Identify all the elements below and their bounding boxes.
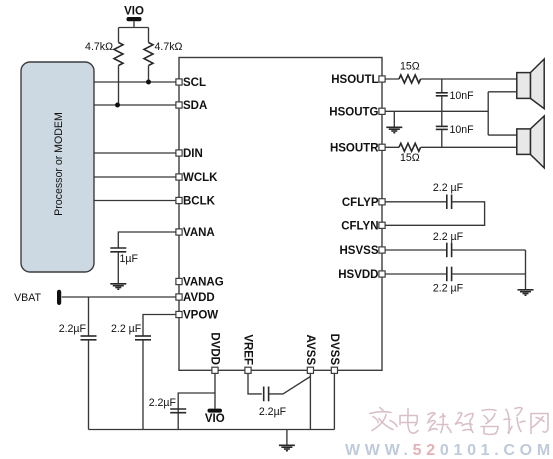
wire AVSS down xyxy=(309,370,311,429)
svg-text:VREF: VREF xyxy=(242,334,254,365)
svg-text:10nF: 10nF xyxy=(450,90,475,102)
pin CFLYN xyxy=(341,220,385,232)
wire WCLK xyxy=(94,176,179,178)
wire cap to bottom rail xyxy=(142,340,144,430)
ground (bottom rail) xyxy=(279,445,295,450)
wire HSOUTR to speaker xyxy=(421,146,518,148)
wire lower speaker return xyxy=(488,134,517,136)
wire DVSS down xyxy=(333,370,335,429)
ground (VANA decoupling) xyxy=(110,284,126,289)
pin WCLK xyxy=(176,172,218,184)
wire DVDD down xyxy=(214,370,216,408)
capacitor 10nF (HSOUTL-HSOUTG) xyxy=(436,90,474,102)
svg-text:HSVDD: HSVDD xyxy=(338,269,378,281)
wire left pullup to SDA xyxy=(118,66,120,106)
wire HSOUTG ground stub xyxy=(393,111,395,127)
wire HSOUTL to speaker xyxy=(421,78,518,80)
svg-text:VPOW: VPOW xyxy=(183,310,218,322)
resistor 15 ohm (HSOUTL) xyxy=(399,61,421,84)
svg-text:CFLYP: CFLYP xyxy=(342,197,379,209)
pin VPOW xyxy=(176,310,218,322)
wire right pullup to SCL xyxy=(148,66,150,83)
wire AVDD from VBAT xyxy=(62,296,179,298)
svg-text:HSOUTG: HSOUTG xyxy=(329,106,378,118)
pin HSOUTR xyxy=(330,142,385,154)
svg-text:15Ω: 15Ω xyxy=(400,152,420,164)
capacitor 2.2uF (VREF) xyxy=(259,387,287,418)
wire DVDD decoupling branch xyxy=(178,393,215,430)
pin HSOUTG xyxy=(329,106,385,118)
pin VANA xyxy=(176,227,215,239)
pin VREF xyxy=(242,334,254,373)
svg-text:HSOUTL: HSOUTL xyxy=(331,74,378,86)
wire VBAT branch down xyxy=(88,297,90,336)
svg-text:1µF: 1µF xyxy=(120,253,139,265)
svg-text:15Ω: 15Ω xyxy=(400,61,420,73)
wire HSVDD xyxy=(382,273,447,275)
ground (HSOUTG) xyxy=(386,127,402,132)
pin AVSS xyxy=(304,335,316,374)
watermark (site logo) xyxy=(370,408,548,435)
pin SDA xyxy=(176,100,207,112)
pin HSVDD xyxy=(338,269,385,281)
wire HSOUTR lead xyxy=(382,146,399,148)
svg-text:HSVSS: HSVSS xyxy=(340,245,379,257)
capacitor 2.2uF (DVDD) xyxy=(149,397,187,413)
wire HSOUTL lead xyxy=(382,78,399,80)
wire VIO stub xyxy=(119,21,149,42)
svg-text:DVSS: DVSS xyxy=(328,334,340,366)
wire SDA xyxy=(94,104,179,106)
wire DIN xyxy=(94,152,179,154)
svg-text:SDA: SDA xyxy=(183,100,207,112)
wire HSVSS xyxy=(382,249,447,251)
svg-text:DVDD: DVDD xyxy=(209,332,221,365)
wire flying cap loop to CFLYN xyxy=(382,202,485,226)
svg-text:10nF: 10nF xyxy=(450,124,475,136)
junction SCL/pullup xyxy=(146,80,151,85)
junction SDA/pullup xyxy=(115,103,120,108)
VBAT terminal xyxy=(14,290,61,305)
svg-text:Processor or MODEM: Processor or MODEM xyxy=(53,112,65,216)
wire HSOUTG xyxy=(382,110,488,112)
speaker (right headphone) xyxy=(517,116,544,168)
svg-text:2.2µF: 2.2µF xyxy=(149,397,177,409)
svg-text:CFLYN: CFLYN xyxy=(341,220,378,232)
svg-text:2.2µF: 2.2µF xyxy=(59,323,87,335)
VIO power rail (bottom, at DVDD) xyxy=(205,409,225,425)
wire HSVSS cap to column xyxy=(452,249,526,251)
ground (HSVSS/HSVDD) xyxy=(518,290,534,295)
svg-text:VANA: VANA xyxy=(183,227,215,239)
svg-text:HSOUTR: HSOUTR xyxy=(330,142,379,154)
IC block (main codec) xyxy=(179,58,382,371)
pin CFLYP xyxy=(342,197,385,209)
svg-text:WCLK: WCLK xyxy=(183,172,218,184)
pin AVDD xyxy=(176,292,215,304)
pin BCLK xyxy=(176,196,216,208)
capacitor 2.2uF (HSVSS) xyxy=(433,231,464,257)
wire filter cap column (top) xyxy=(441,79,443,93)
capacitor 10nF (HSOUTG-HSOUTR) xyxy=(436,124,474,136)
wire cap to bottom rail xyxy=(88,340,90,430)
svg-text:2.2 µF: 2.2 µF xyxy=(111,323,142,335)
pin HSOUTL xyxy=(331,74,385,86)
wire SCL xyxy=(94,81,179,83)
wire VPOW xyxy=(143,315,179,336)
svg-text:AVSS: AVSS xyxy=(304,335,316,366)
wire filter cap column (middle) xyxy=(441,96,443,126)
svg-text:DIN: DIN xyxy=(183,148,203,160)
svg-text:AVDD: AVDD xyxy=(183,292,215,304)
capacitor 2.2uF (VPOW) xyxy=(111,323,151,340)
svg-text:VIO: VIO xyxy=(205,413,225,425)
svg-text:4.7kΩ: 4.7kΩ xyxy=(155,41,183,53)
wire CFLYP xyxy=(382,201,447,203)
resistor 4.7k (left pullup) xyxy=(85,41,123,65)
svg-text:2.2 µF: 2.2 µF xyxy=(433,182,464,194)
wire bottom ground rail xyxy=(89,429,335,431)
pin DVDD xyxy=(209,332,221,373)
resistor 15 ohm (HSOUTR) xyxy=(399,143,421,164)
wire filter cap column (bottom) xyxy=(441,129,443,147)
svg-text:BCLK: BCLK xyxy=(183,196,216,208)
processor block U? (Processor or MODEM) xyxy=(21,62,94,272)
svg-text:VANAG: VANAG xyxy=(183,277,224,289)
wire ground stub xyxy=(286,430,288,446)
VIO power rail (top) xyxy=(124,6,144,22)
wire VREF down xyxy=(248,370,262,394)
svg-text:VIO: VIO xyxy=(124,6,144,18)
capacitor 1uF (VANA) xyxy=(110,248,138,265)
wire VANA to decoupling xyxy=(118,232,179,248)
pin DIN xyxy=(176,148,203,160)
svg-text:2.2µF: 2.2µF xyxy=(259,406,287,418)
resistor 4.7k (right pullup) xyxy=(144,41,183,65)
svg-text:WWW.520101.COM: WWW.520101.COM xyxy=(345,442,553,459)
pin HSVSS xyxy=(340,245,386,257)
wire speaker return column xyxy=(487,92,489,135)
wire right ground column xyxy=(525,250,527,290)
svg-text:2.2 µF: 2.2 µF xyxy=(433,283,464,295)
pin SCL xyxy=(176,77,206,89)
speaker (left headphone) xyxy=(517,59,544,109)
svg-text:2.2 µF: 2.2 µF xyxy=(433,231,464,243)
svg-text:SCL: SCL xyxy=(183,77,206,89)
capacitor 2.2uF (flying cap) xyxy=(433,182,464,209)
wire VREF cap to AVSS xyxy=(269,377,311,394)
wire BCLK xyxy=(94,200,179,202)
capacitor 2.2uF (HSVDD) xyxy=(433,267,464,295)
wire upper speaker return xyxy=(488,91,517,93)
pin DVSS xyxy=(328,334,340,374)
pin VANAG xyxy=(176,277,224,289)
capacitor 2.2uF (VBAT left) xyxy=(59,323,97,340)
svg-text:4.7kΩ: 4.7kΩ xyxy=(85,41,113,53)
wire cap to ground xyxy=(117,252,119,284)
svg-text:VBAT: VBAT xyxy=(14,292,41,304)
wire HSVDD cap to column xyxy=(452,273,526,275)
